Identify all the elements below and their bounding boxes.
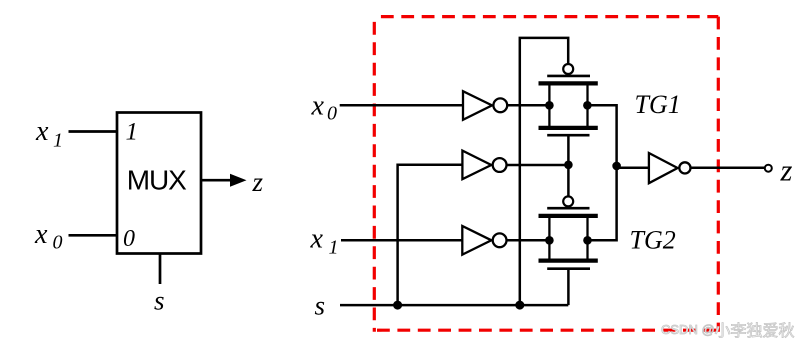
svg-text:x: x xyxy=(311,90,325,121)
svg-text:1: 1 xyxy=(329,237,339,259)
svg-text:s: s xyxy=(315,290,326,320)
svg-text:1: 1 xyxy=(126,119,139,146)
svg-text:z: z xyxy=(780,154,793,188)
svg-text:x: x xyxy=(310,223,324,254)
svg-text:TG1: TG1 xyxy=(635,90,681,119)
svg-text:1: 1 xyxy=(53,130,63,152)
svg-text:0: 0 xyxy=(327,103,337,125)
svg-text:s: s xyxy=(154,286,165,316)
svg-text:0: 0 xyxy=(53,232,63,254)
svg-text:x: x xyxy=(35,116,49,147)
svg-text:CSDN @: CSDN @ xyxy=(661,322,715,337)
svg-text:0: 0 xyxy=(123,226,135,252)
svg-text:TG2: TG2 xyxy=(630,226,676,255)
svg-text:小李独爱秋: 小李独爱秋 xyxy=(715,322,795,340)
svg-text:x: x xyxy=(34,219,48,250)
svg-text:MUX: MUX xyxy=(127,165,187,196)
svg-text:z: z xyxy=(252,167,264,197)
